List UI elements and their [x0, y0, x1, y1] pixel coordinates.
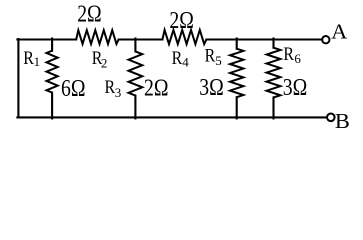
- node B terminal circle: [327, 114, 335, 122]
- svg-text:3Ω: 3Ω: [199, 75, 224, 101]
- svg-text:2Ω: 2Ω: [169, 8, 194, 34]
- label R2: [92, 49, 108, 70]
- label R3: [105, 78, 122, 100]
- svg-text:R: R: [172, 49, 183, 69]
- label R6: [283, 45, 301, 66]
- resistor R5 (3 ohm, vertical zigzag) with stubs: [236, 39, 238, 49]
- svg-text:5: 5: [215, 53, 222, 68]
- wire: left vertical side: [17, 39, 19, 118]
- svg-text:1: 1: [34, 54, 41, 69]
- svg-text:6Ω: 6Ω: [61, 76, 86, 102]
- resistor R2 (2 ohm, horizontal zigzag): [76, 30, 118, 44]
- svg-text:B: B: [335, 109, 350, 132]
- label R1: [23, 49, 40, 69]
- node A terminal circle: [322, 36, 329, 43]
- label R4: [172, 49, 190, 70]
- svg-text:A: A: [331, 20, 348, 44]
- svg-text:2: 2: [101, 55, 108, 70]
- svg-text:3Ω: 3Ω: [283, 75, 308, 101]
- resistor R1 (6 ohm, vertical zigzag) with stubs: [51, 39, 53, 51]
- resistor R6 (3 ohm, vertical zigzag) with stubs: [272, 39, 274, 48]
- svg-text:4: 4: [182, 55, 189, 70]
- svg-text:3: 3: [115, 85, 122, 100]
- svg-text:6: 6: [294, 51, 301, 66]
- svg-text:2Ω: 2Ω: [144, 76, 169, 102]
- wire: top horizontal, R4 to node A: [206, 38, 321, 40]
- wire: top horizontal, between R2 and R4: [119, 38, 163, 40]
- wire: bottom horizontal: [17, 116, 326, 118]
- svg-text:2Ω: 2Ω: [77, 2, 102, 28]
- svg-text:R: R: [205, 46, 216, 66]
- label R5: [205, 46, 222, 68]
- resistor R3 (2 ohm, vertical zigzag) with stubs: [134, 39, 136, 52]
- svg-text:R: R: [283, 45, 294, 65]
- wire: top horizontal, left segment to R2: [17, 38, 76, 40]
- resistor R4 (2 ohm, horizontal zigzag): [162, 30, 206, 44]
